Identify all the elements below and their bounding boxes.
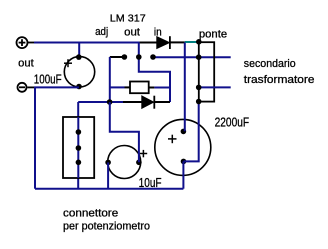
wire negative rail blue to C1 bottom (34, 86, 79, 88)
wire connector drop blue (77, 102, 79, 189)
wire secondary 2 blue (199, 86, 231, 88)
terminal + (positive output) (17, 37, 35, 48)
wire ground rail bottom (35, 188, 183, 190)
node bridge ac1 (196, 54, 202, 60)
svg-text:trasformatore: trasformatore (244, 74, 315, 86)
node junction adj net (107, 99, 113, 105)
wire black lead into D2 (123, 101, 142, 103)
wire drop to C1 top (78, 43, 80, 57)
resistor R1 (110, 82, 170, 94)
wire C3 minus to bridge blue (184, 102, 199, 162)
wire adj pin lead black (110, 56, 125, 58)
bridge rectifier (ponte) (199, 42, 214, 101)
terminal - (negative output) (18, 83, 35, 92)
svg-text:100uF: 100uF (34, 72, 62, 87)
wire blue drop to C3 plus (184, 43, 186, 132)
diode D1 (top) (157, 36, 185, 49)
wire C3 minus to ground rail blue (182, 161, 184, 188)
node out pin (136, 54, 142, 60)
wire adj net to C2 plus (110, 102, 139, 162)
node bridge ac2 (196, 85, 202, 91)
svg-text:connettore: connettore (63, 208, 118, 220)
svg-text:adj: adj (95, 26, 108, 38)
connector J1 (potentiometer) (63, 117, 94, 178)
capacitor C1 100uF (64, 54, 95, 89)
svg-text:LM 317: LM 317 (110, 12, 146, 24)
wire adj net vertical blue (109, 57, 111, 102)
node bridge bottom (196, 99, 202, 105)
svg-text:out: out (18, 58, 34, 70)
svg-text:out: out (124, 26, 140, 38)
wire left vertical down (34, 87, 36, 188)
wire top rail black from out-pin tee to diode D1 (139, 42, 157, 44)
svg-text:ponte: ponte (199, 28, 227, 40)
wire C2 minus drop blue (107, 162, 109, 188)
svg-text:2200uF: 2200uF (215, 115, 250, 130)
node bridge top (196, 39, 202, 45)
capacitor C2 10uF (105, 146, 147, 179)
svg-text:secondario: secondario (244, 58, 296, 70)
capacitor C3 2200uF (155, 119, 211, 175)
wire teal segment to bridge (185, 41, 199, 43)
wire top rail blue from + to out pin (34, 42, 139, 44)
svg-text:per potenziometro: per potenziometro (63, 220, 150, 232)
diode D2 (lower) (142, 96, 170, 109)
wire in pin to bridge blue (153, 56, 231, 58)
wire junction row blue (78, 101, 123, 103)
svg-text:10uF: 10uF (139, 175, 162, 190)
svg-text:in: in (154, 26, 162, 38)
node adj pin (122, 54, 128, 60)
wire out pin vertical blue (139, 43, 170, 103)
node in pin (150, 54, 156, 60)
